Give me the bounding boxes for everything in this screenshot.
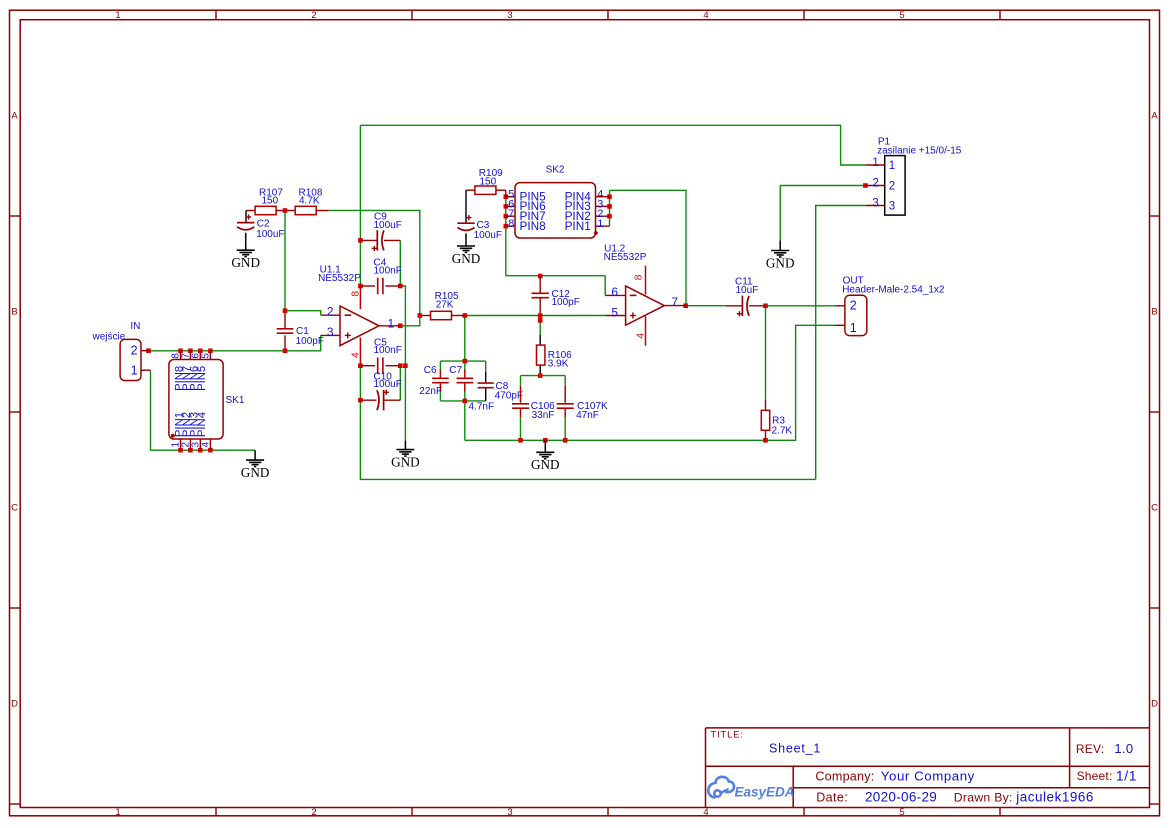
svg-text:1: 1 — [889, 160, 895, 172]
EasyEDA logo cloud — [708, 777, 734, 798]
svg-text:100uF: 100uF — [474, 230, 502, 241]
svg-text:3: 3 — [327, 325, 334, 339]
svg-text:C: C — [1151, 503, 1158, 514]
svg-text:3: 3 — [889, 200, 895, 212]
junction R106 bottom — [538, 373, 543, 378]
svg-text:5: 5 — [899, 807, 904, 818]
wire R108 output to R105 — [329, 210, 420, 315]
junction SK1 pin1 bottom — [178, 448, 183, 453]
junction C5 right — [398, 363, 403, 368]
junction C9 left — [358, 238, 363, 243]
junction C4 left — [358, 284, 363, 289]
wire ground row to R3 and OUT pin1 riser — [465, 325, 836, 440]
svg-text:1: 1 — [872, 157, 878, 169]
frame row ticks left — [10, 215, 21, 217]
junction P1 pin2 — [863, 183, 868, 188]
wire SK2 left pins column — [505, 197, 507, 276]
resistor R108 — [287, 210, 295, 212]
junction R105 left — [418, 313, 423, 318]
svg-text:3: 3 — [872, 197, 878, 209]
capacitor C7 — [464, 370, 466, 378]
svg-text:Your Company: Your Company — [881, 769, 975, 784]
op-amp U1.1 pin 4 power lead — [359, 338, 361, 366]
ground symbol GND at C106/C107 — [544, 440, 546, 452]
wire V+ column to C9 — [359, 125, 361, 240]
wire C9 left to C4 left (pin8 net) — [359, 240, 361, 286]
wire R107/R108 junction down to C1 — [284, 211, 286, 311]
svg-text:PIN4: PIN4 — [196, 412, 208, 437]
svg-text:8: 8 — [633, 274, 645, 280]
junction SK1 pin6 top — [198, 349, 203, 354]
capacitor C5 — [360, 365, 375, 367]
svg-text:4.7nF: 4.7nF — [469, 401, 495, 412]
junction C12 bottom — [538, 313, 543, 318]
junction R107-R108 — [283, 208, 288, 213]
svg-text:GND: GND — [391, 455, 420, 470]
capacitor C107K — [564, 386, 566, 403]
wire V+ top rail to P1 pin1 — [360, 125, 865, 165]
svg-text:B: B — [11, 307, 17, 318]
ground symbol GND at C3 — [465, 236, 467, 246]
wire C7 branch — [464, 361, 466, 369]
svg-text:Sheet:: Sheet: — [1077, 769, 1113, 783]
resistor R107 — [246, 210, 255, 212]
junction C6/C7 top — [463, 359, 468, 364]
junction op-amp U1.1 output — [398, 324, 403, 329]
svg-text:3: 3 — [507, 10, 512, 21]
svg-text:2: 2 — [311, 807, 316, 818]
frame row ticks right — [1150, 215, 1160, 217]
junction SK1 pin5 top — [208, 349, 213, 354]
junction SK1 pin2 bottom — [188, 448, 193, 453]
svg-text:100pF: 100pF — [296, 336, 324, 347]
resistor R106 — [539, 335, 541, 345]
capacitor C1 — [284, 313, 286, 329]
junction C107 bottom — [563, 438, 568, 443]
wire R106 top to pin5 row — [539, 316, 541, 335]
wire C107 branch — [564, 376, 566, 386]
svg-text:Header-Male-2.54_1x2: Header-Male-2.54_1x2 — [842, 285, 945, 296]
svg-text:5: 5 — [611, 305, 618, 319]
SK1 first pin dot — [171, 434, 175, 438]
svg-text:6: 6 — [611, 285, 618, 299]
svg-text:Date:: Date: — [816, 791, 848, 805]
wire V- column down to bottom rail — [360, 400, 815, 479]
svg-text:A: A — [11, 111, 18, 122]
capacitor C8 — [485, 372, 487, 383]
wire R105 right down to C6/C7 top — [464, 316, 466, 362]
svg-text:GND: GND — [241, 465, 270, 480]
svg-text:5: 5 — [201, 353, 212, 359]
svg-text:1/1: 1/1 — [1116, 767, 1137, 783]
svg-text:100pF: 100pF — [552, 297, 580, 308]
frame column ticks bottom — [215, 808, 217, 816]
svg-text:2: 2 — [327, 304, 334, 318]
svg-text:1: 1 — [131, 363, 138, 377]
wire output down to R3 — [765, 306, 767, 401]
junction SK2 pin4 — [607, 194, 612, 199]
wire pin4 column C5 left to C10 left — [359, 366, 361, 401]
wire C106 branch — [520, 376, 522, 386]
wire C4 right jog to GND column — [400, 286, 405, 441]
wire P1 pin2 to GND — [780, 185, 865, 187]
svg-text:100nF: 100nF — [374, 345, 402, 356]
svg-text:zasilanie +15/0/-15: zasilanie +15/0/-15 — [877, 145, 962, 156]
op-amp U1.2 pin 4 power lead — [645, 316, 647, 346]
svg-text:IN: IN — [130, 321, 140, 332]
wire IN pin1 down and along SK1 bottom to GND — [151, 370, 256, 450]
junction IN pin2 — [146, 348, 151, 353]
junction SK2 pin7 — [504, 214, 509, 219]
op-amp U1.1 pin 8 power lead — [359, 286, 361, 309]
capacitor C3 polarized — [465, 190, 467, 223]
junction R3 bottom — [763, 438, 768, 443]
wire V- rail up to P1 pin3 — [816, 206, 866, 480]
svg-text:1.0: 1.0 — [1114, 741, 1133, 756]
svg-text:10uF: 10uF — [736, 285, 759, 296]
op-amp U1.2 NE5532P — [626, 286, 665, 325]
svg-text:5: 5 — [899, 10, 904, 21]
svg-text:33nF: 33nF — [532, 410, 555, 421]
svg-text:470pF: 470pF — [495, 390, 523, 401]
svg-text:8: 8 — [349, 291, 361, 297]
svg-text:150: 150 — [480, 176, 497, 187]
wire down to U1.2 pin6 — [604, 276, 606, 296]
svg-text:1: 1 — [850, 321, 857, 335]
svg-text:wejście: wejście — [92, 332, 126, 343]
connector IN (wejscie) — [120, 339, 141, 380]
svg-text:GND: GND — [766, 255, 795, 270]
junction SK2 pin6 — [504, 204, 509, 209]
capacitor C4 — [360, 285, 375, 287]
svg-text:8: 8 — [508, 218, 514, 230]
junction SK2 pin3 — [607, 204, 612, 209]
junction U1.2 output — [683, 303, 688, 308]
wire C6/C7/C8 bottom row — [440, 400, 485, 402]
wire C5 right to C10 right — [399, 366, 401, 401]
junction C4 right — [398, 284, 403, 289]
svg-text:GND: GND — [452, 251, 481, 266]
resistor R105 — [420, 315, 431, 317]
junction R105 right — [463, 313, 468, 318]
svg-text:2.7K: 2.7K — [772, 426, 793, 437]
svg-text:B: B — [1151, 307, 1157, 318]
svg-text:1: 1 — [597, 218, 603, 230]
wire C6/C7/C8 top row — [440, 360, 485, 362]
svg-text:REV:: REV: — [1076, 742, 1104, 756]
svg-text:PIN8: PIN8 — [520, 219, 547, 233]
svg-text:C: C — [11, 503, 18, 514]
wire C11 right to OUT pin2 — [766, 305, 836, 307]
svg-text:1: 1 — [115, 10, 120, 21]
ground symbol GND at SK1 — [254, 450, 256, 460]
svg-text:SK1: SK1 — [226, 395, 245, 406]
wire U1.2 output to C11 — [686, 305, 726, 307]
wire C6 branch — [439, 361, 441, 369]
resistor R3 — [765, 401, 767, 411]
op-amp U1.1 NE5532P — [340, 306, 379, 346]
junction SK1 pin4 bottom — [208, 448, 213, 453]
frame column ticks top — [215, 10, 217, 20]
capacitor C10 polarized — [360, 399, 376, 401]
junction SK1 pin7 top — [188, 349, 193, 354]
svg-text:NE5532P: NE5532P — [604, 252, 647, 263]
svg-text:PIN5: PIN5 — [196, 366, 208, 391]
svg-text:22nF: 22nF — [419, 386, 442, 397]
svg-text:2: 2 — [889, 180, 895, 192]
connector SK2 — [515, 183, 596, 238]
ground symbol GND at P1 pin2 — [779, 240, 781, 250]
capacitor C6 — [439, 370, 441, 378]
junction C10 left — [358, 398, 363, 403]
svg-text:GND: GND — [531, 457, 560, 472]
wire C106 C107 top row — [521, 375, 566, 377]
svg-text:jaculek1966: jaculek1966 — [1015, 790, 1094, 805]
junction SK2 pin8 — [504, 224, 509, 229]
capacitor C2 polarized — [245, 211, 247, 223]
svg-text:TITLE:: TITLE: — [711, 730, 744, 740]
junction SK2 pin2 — [607, 214, 612, 219]
capacitor C106 — [520, 386, 522, 403]
ground symbol GND at C2 — [245, 240, 247, 250]
op-amp U1.2 pin 8 power lead — [645, 266, 647, 295]
capacitor C11 polarized — [725, 305, 742, 307]
svg-text:4: 4 — [635, 333, 647, 339]
svg-text:SK2: SK2 — [546, 165, 565, 176]
svg-text:Company:: Company: — [815, 770, 874, 784]
svg-text:100uF: 100uF — [374, 379, 402, 390]
svg-text:150: 150 — [262, 195, 279, 206]
junction C1 bottom — [283, 349, 288, 354]
svg-text:2: 2 — [850, 298, 857, 312]
capacitor C12 — [539, 276, 541, 293]
svg-text:4: 4 — [703, 10, 708, 21]
junction C11 right — [763, 304, 768, 309]
junction SK2 pin5 — [504, 194, 509, 199]
svg-text:3.9K: 3.9K — [548, 359, 569, 370]
svg-text:2020-06-29: 2020-06-29 — [865, 790, 937, 805]
wire C7 bottom down to ground row — [464, 401, 466, 440]
resistor R109 — [466, 189, 475, 191]
svg-text:Drawn By:: Drawn By: — [954, 791, 1013, 805]
svg-text:27K: 27K — [436, 299, 454, 310]
ground symbol GND below C10 column — [404, 441, 406, 450]
connector P1 power header — [885, 156, 905, 216]
svg-text:C7: C7 — [449, 365, 462, 376]
svg-text:4: 4 — [703, 807, 708, 818]
svg-text:4: 4 — [349, 352, 361, 358]
svg-text:C6: C6 — [424, 365, 437, 376]
wire C12 top row from SK2 pins — [506, 275, 605, 277]
wire C1 top to op-amp pin2 — [285, 311, 321, 316]
connector SK1 — [169, 360, 223, 440]
svg-text:2: 2 — [311, 10, 316, 21]
junction R106 top — [538, 318, 543, 323]
SK2 first pin dot — [594, 231, 598, 235]
svg-text:GND: GND — [231, 255, 260, 270]
junction SK1 pin8 top — [178, 349, 183, 354]
svg-text:1: 1 — [388, 316, 395, 330]
junction ground row GND — [543, 438, 548, 443]
connector OUT header — [845, 295, 867, 335]
svg-text:2: 2 — [872, 177, 878, 189]
wire R105 right to U1.2 pin5 row — [465, 315, 605, 317]
junction C5 right GND column — [403, 363, 408, 368]
wire C9 right to C4 right — [399, 240, 401, 286]
svg-text:100uF: 100uF — [256, 229, 284, 240]
svg-text:NE5532P: NE5532P — [318, 273, 361, 284]
title block outline — [706, 728, 1150, 808]
svg-text:100uF: 100uF — [374, 220, 402, 231]
svg-text:4: 4 — [201, 442, 212, 448]
capacitor C9 polarized — [360, 239, 377, 241]
svg-text:2: 2 — [131, 344, 138, 358]
svg-text:PIN1: PIN1 — [565, 219, 591, 233]
svg-text:Sheet_1: Sheet_1 — [769, 742, 821, 756]
wire SK2 right to U1.2 output — [610, 190, 687, 305]
svg-text:1: 1 — [115, 807, 120, 818]
junction SK1 pin3 bottom — [198, 448, 203, 453]
junction C1 top — [283, 308, 288, 313]
junction C5 left — [358, 363, 363, 368]
svg-text:100nF: 100nF — [374, 266, 402, 277]
svg-text:3: 3 — [507, 807, 512, 818]
svg-text:7: 7 — [671, 295, 678, 309]
wire R105 left to op-amp output node — [400, 316, 420, 326]
svg-text:4.7K: 4.7K — [299, 195, 320, 206]
svg-text:A: A — [1151, 111, 1158, 122]
svg-text:47nF: 47nF — [576, 410, 599, 421]
wire input net from IN pin2 along SK1 top — [149, 335, 321, 350]
wire SK2 right pins column — [609, 190, 611, 226]
junction C106 bottom — [518, 438, 523, 443]
svg-text:D: D — [11, 699, 18, 710]
svg-text:EasyEDA: EasyEDA — [735, 785, 795, 800]
junction C12 top — [538, 274, 543, 279]
junction C7 bottom — [463, 399, 468, 404]
svg-text:D: D — [1151, 699, 1158, 710]
